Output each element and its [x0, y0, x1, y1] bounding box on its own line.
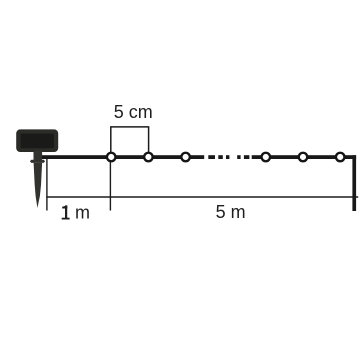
bulb 5	[299, 153, 308, 162]
dimension line bottom (1 m + 5 m)	[46, 196, 358, 198]
value label 1 m (digit 1, serif-footed)	[65, 205, 67, 218]
svg-text:5 cm: 5 cm	[114, 102, 153, 122]
bulb 1	[107, 153, 116, 162]
svg-text:5 m: 5 m	[216, 202, 246, 222]
wire segment left	[36, 155, 204, 159]
wire dash 5	[244, 155, 250, 159]
panel post	[34, 151, 43, 162]
wire dash 4	[237, 155, 240, 159]
mounting collar	[30, 160, 45, 163]
svg-text:m: m	[75, 203, 90, 223]
dimension bracket "5 cm" between bulb 1 and bulb 2	[111, 127, 149, 152]
ground stake spike	[34, 163, 43, 208]
wire dash 3	[226, 155, 229, 159]
wire dash 2	[218, 155, 223, 159]
tick at stake	[46, 159, 48, 211]
solar panel cell	[21, 134, 54, 149]
bulb 2	[144, 153, 153, 162]
bulb 4	[262, 153, 271, 162]
wire dash 1	[208, 155, 215, 159]
solar panel frame	[16, 129, 58, 152]
wire end drop	[352, 155, 356, 211]
tick at bulb 1	[109, 162, 111, 211]
bulb 3	[181, 153, 190, 162]
wire segment right	[252, 155, 356, 159]
bulb 6	[336, 153, 345, 162]
